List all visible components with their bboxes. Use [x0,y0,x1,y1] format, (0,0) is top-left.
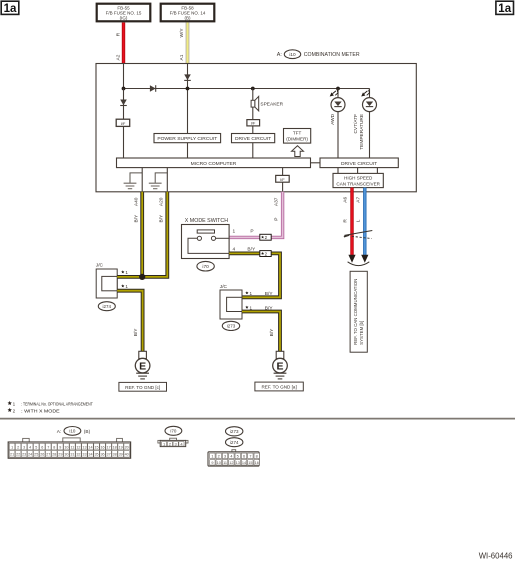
svg-text:MICRO COMPUTER: MICRO COMPUTER [191,161,237,167]
svg-text:B/Y: B/Y [133,214,139,223]
svg-text:10: 10 [64,445,68,449]
speaker symbol [251,96,259,111]
footnote *2 WITH X MODE [8,408,60,414]
svg-text:1: 1 [250,291,253,296]
wire node 4 to LED AWD [337,89,339,98]
connector view oval i10 [64,427,81,436]
svg-text:SPEAKER: SPEAKER [260,101,283,107]
connector i10 pin layout (40-pin) [8,438,130,458]
svg-text:2: 2 [13,408,16,413]
svg-text:TFT: TFT [293,131,302,136]
svg-text:3: 3 [23,445,25,449]
arrow end CAN high [348,255,355,263]
wire node 1 down to I/F [123,89,125,120]
svg-text:17: 17 [107,445,111,449]
svg-text:15: 15 [94,445,98,449]
svg-text:A20: A20 [159,197,165,206]
svg-text:1a: 1a [498,3,511,15]
wire speaker to I/F [252,107,254,120]
wire micro computer to I/F (A37) [282,168,284,176]
svg-text:1: 1 [11,445,13,449]
hollow up-arrow to TFT dimmer [292,146,304,157]
svg-text:1: 1 [232,228,235,234]
svg-text:I/F: I/F [251,121,256,126]
node 2 (A1 junction) [186,87,190,91]
wire drive circuit to micro computer [252,143,254,158]
svg-text:39: 39 [119,453,123,457]
svg-text:B/Y: B/Y [133,328,139,337]
connector i70 pin layout (4-pin) [158,438,188,446]
svg-text:14: 14 [88,445,92,449]
option box *2 (pin 4 wire) [260,251,271,257]
wire R from FB-55 to pin A2 [122,23,125,64]
svg-text:8: 8 [256,455,258,459]
connector oval i70 [197,261,214,271]
connector oval i274 [98,302,115,311]
wire P from pin A37 to X mode switch [229,192,283,238]
svg-text:i273: i273 [230,429,239,434]
svg-text:12: 12 [229,461,233,465]
wire I/F to pin A37 [282,182,284,192]
wire micro computer to pin A20 [166,168,168,192]
svg-text:R: R [343,219,349,223]
svg-text:REF. TO CAN COMMUNICATION: REF. TO CAN COMMUNICATION [353,279,358,345]
connector oval i10 [284,50,300,59]
svg-text:E: E [276,360,283,372]
svg-text:2: 2 [218,455,220,459]
svg-text:1: 1 [125,284,128,289]
svg-text:B/Y: B/Y [265,306,274,312]
svg-text:REF. TO GND [a]: REF. TO GND [a] [261,385,296,390]
illumination arrow at LED CVT/ATF [361,90,369,97]
svg-text:1: 1 [13,401,16,406]
svg-text:(DIMMER): (DIMMER) [286,137,308,142]
svg-text:15: 15 [248,461,252,465]
svg-text:i274: i274 [230,440,239,445]
svg-text:B/Y: B/Y [265,291,274,297]
wire drive circuit to CAN transceiver (1) [337,168,339,174]
svg-text:27: 27 [46,453,50,457]
wire W/Y from FB-58 to pin A1 [186,23,190,64]
wire drive circuit to CAN transceiver (3) [376,168,378,174]
svg-text:38: 38 [113,453,117,457]
svg-text:4: 4 [29,445,31,449]
block MICRO COMPUTER [117,158,311,168]
switch contact (left) [197,236,201,240]
wire B/Y from switch pin 4 to joint connector [229,253,280,297]
wire bus corner down to LED CVT/ATF [369,89,371,98]
svg-text:P: P [250,228,253,234]
svg-text:A:: A: [277,52,282,58]
joint connector J/C i274 [96,269,117,298]
svg-text:2: 2 [17,445,19,449]
svg-text:B/Y: B/Y [269,328,275,337]
svg-text:A37: A37 [274,197,280,206]
earth ground E (right) [273,351,288,379]
arrow end CAN low [361,255,368,263]
node 4 (LED branch) [336,87,340,91]
svg-text:CVT/ATF: CVT/ATF [353,114,359,134]
terminal *1 (i274 bottom) [121,284,128,289]
earth ground E (left) [135,351,150,379]
svg-text:A40: A40 [133,197,139,206]
svg-text:i274: i274 [103,304,112,309]
svg-text:37: 37 [107,453,111,457]
svg-text:20: 20 [125,445,129,449]
svg-text:i273: i273 [227,324,236,329]
connector oval i273 [222,321,239,330]
LED indicator AWD [331,98,345,112]
svg-text:CAN TRANSCEIVER: CAN TRANSCEIVER [336,181,380,186]
svg-text:36: 36 [100,453,104,457]
LED indicator CVT/ATF TEMPERATURE [363,98,377,112]
svg-text:COMBINATION METER: COMBINATION METER [304,52,360,58]
svg-text:(IG): (IG) [120,15,128,20]
svg-text:25: 25 [34,453,38,457]
svg-text:A6: A6 [343,197,349,203]
combination meter unit box A i10 [96,64,416,192]
svg-text:1: 1 [211,455,213,459]
fuse box FB-55 F/B FUSE NO. 15 (IG) [97,4,151,22]
svg-text:31: 31 [70,453,74,457]
svg-text:4: 4 [230,455,232,459]
svg-text:14: 14 [242,461,246,465]
connector view oval i70 [165,426,182,435]
terminal *1 (i274 top) [121,270,128,275]
joint connector J/C i273 [220,290,242,319]
connector view oval i273 [226,427,243,436]
svg-text:i70: i70 [202,264,209,270]
svg-text:J/C: J/C [220,284,228,290]
svg-text:30: 30 [64,453,68,457]
connector i273/i274 pin layout (16-pin) [208,450,259,466]
svg-text:TEMPERATURE: TEMPERATURE [359,114,365,150]
switch actuator bar [197,230,214,233]
wire B/Y from pin A40 [140,192,144,277]
svg-text:AWD: AWD [330,113,336,125]
twisted pair symbol on CAN wires [344,231,372,239]
fuse box FB-58 F/B FUSE NO. 14 (B) [161,4,215,22]
wire left contact to pin 4 [188,238,229,253]
interface box I/F (left) [116,119,130,126]
wire drive circuit to CAN transceiver (2) [357,168,359,174]
block DRIVE CIRCUIT (meter) [320,158,398,168]
wire L CAN low from pin A7 [363,188,366,256]
svg-text:11: 11 [223,461,227,465]
svg-text:DRIVE CIRCUIT: DRIVE CIRCUIT [341,161,377,167]
svg-text:5: 5 [237,455,239,459]
svg-text:18: 18 [113,445,117,449]
svg-text:8: 8 [53,445,55,449]
grid reference 1a (top-left) [1,1,19,15]
svg-text:24: 24 [28,453,32,457]
wire power supply circuit to micro computer [187,143,189,158]
svg-text:A:: A: [57,429,62,435]
footer divider line [0,418,515,420]
grid reference 1a (top-right) [496,1,514,15]
wire I/F to micro computer [123,126,125,158]
junction of A40/A20 grounds [139,274,145,280]
wire right contact to pin 1 [216,237,230,239]
svg-text:16: 16 [100,445,104,449]
illumination arrow at LED AWD [330,90,338,97]
svg-text:32: 32 [76,453,80,457]
reference box REF. TO GND [a] [255,382,303,391]
svg-text:9: 9 [211,461,213,465]
svg-text:35: 35 [94,453,98,457]
svg-text:22: 22 [16,453,20,457]
svg-text:40: 40 [125,453,129,457]
wire node 3 to speaker [252,89,254,101]
diode D1 on bus (points right) [150,85,156,92]
svg-text:POWER SUPPLY CIRCUIT: POWER SUPPLY CIRCUIT [157,136,217,142]
ground symbol (internal, right) [149,173,168,189]
block DRIVE CIRCUIT (speaker) [232,134,275,143]
wire LED CVT/ATF to drive circuit (right) [369,112,371,158]
reference box REF. TO CAN COMMUNICATION SYSTEM [350,271,367,352]
svg-text:A7: A7 [356,197,362,203]
svg-text:i10: i10 [289,52,296,57]
svg-text:W/Y: W/Y [179,28,185,38]
wire B/Y junction to J/C i274 top [117,275,142,279]
svg-text:L: L [356,219,362,222]
svg-text:1: 1 [250,306,253,311]
svg-text:E: E [139,360,146,372]
svg-text:i70: i70 [170,429,177,434]
wire B/Y J/C i274 to ground [117,291,142,352]
svg-text:10: 10 [217,461,221,465]
svg-text:P: P [274,218,280,221]
ground symbol (internal, left) [124,173,143,189]
svg-text:R: R [115,32,121,36]
svg-text:X MODE SWITCH: X MODE SWITCH [185,218,228,224]
wire micro computer to pin A40 [141,168,143,192]
svg-text:5: 5 [35,445,37,449]
svg-text:i10: i10 [69,429,76,434]
switch box X MODE SWITCH [182,225,230,259]
block TFT (DIMMER) [284,129,311,144]
svg-text:6: 6 [41,445,43,449]
svg-text:12: 12 [76,445,80,449]
svg-text:19: 19 [119,445,123,449]
svg-text:7: 7 [47,445,49,449]
internal supply bus [124,88,370,90]
svg-text:I/F: I/F [121,121,126,126]
svg-text:A2: A2 [115,54,121,60]
option box *2 (pin 1 wire) [260,234,271,240]
switch contact (right) [211,236,215,240]
svg-text:(B): (B) [185,15,192,20]
svg-text:B/Y: B/Y [159,214,165,223]
svg-text:33: 33 [82,453,86,457]
grouping arc under CAN arrows [348,262,370,266]
svg-text:HIGH SPEED: HIGH SPEED [344,175,373,180]
wire I/F to drive circuit [252,126,254,134]
reference box REF. TO GND [c] [119,382,167,391]
svg-text:(B): (B) [84,429,91,435]
svg-text:A1: A1 [179,54,185,60]
wire B/Y from pin A20 [142,192,167,277]
svg-text:7: 7 [249,455,251,459]
svg-text:REF. TO GND [c]: REF. TO GND [c] [125,385,160,390]
svg-text:13: 13 [236,461,240,465]
svg-text:I/F: I/F [280,177,285,182]
svg-text:16: 16 [255,461,259,465]
svg-text:J/C: J/C [96,263,104,269]
diode D3 below node 1 (points down) [120,100,127,106]
diode D2 on A1 feed (points down) [184,74,191,80]
wire LED AWD to drive circuit (right) [337,112,339,158]
svg-text:28: 28 [52,453,56,457]
svg-text:21: 21 [10,453,14,457]
svg-text:13: 13 [82,445,86,449]
wire B/Y J/C i273 to ground [242,312,280,352]
connector view oval i274 [226,438,243,447]
svg-text:DRIVE CIRCUIT: DRIVE CIRCUIT [235,136,271,142]
wire from pin A1 through diode to power supply circuit [187,64,189,134]
interface box I/F (speaker) [247,120,260,126]
wire from pin A2 to node 1 [123,64,125,89]
svg-text:1: 1 [125,270,128,275]
svg-text:23: 23 [22,453,26,457]
svg-text:6: 6 [243,455,245,459]
wire R CAN high from pin A6 [350,188,353,256]
svg-text:: WITH X MODE: : WITH X MODE [21,408,60,413]
svg-text:WI-60446: WI-60446 [479,551,513,560]
svg-text:: TERMINAL No. OPTIONAL ARRANG: : TERMINAL No. OPTIONAL ARRANGEMENT [21,401,93,406]
svg-text:11: 11 [70,445,74,449]
svg-text:34: 34 [88,453,92,457]
terminal *1 (i273 top) [245,291,252,296]
interface box I/F (X mode) [276,175,290,182]
svg-text:3: 3 [224,455,226,459]
svg-text:26: 26 [40,453,44,457]
block HIGH SPEED CAN TRANSCEIVER [333,173,383,187]
svg-text:SYSTEM [b]: SYSTEM [b] [359,321,364,345]
block POWER SUPPLY CIRCUIT [154,134,221,143]
svg-text:1a: 1a [4,3,17,15]
node 1 (A2 junction) [122,87,126,91]
footnote *1 TERMINAL No. OPTIONAL ARRANGEMENT [8,401,93,407]
svg-text:29: 29 [58,453,62,457]
terminal *1 (i273 bottom) [245,306,252,311]
wire micro computer to drive circuit (right) [311,162,321,164]
svg-text:9: 9 [59,445,61,449]
node 3 (speaker branch) [251,87,255,91]
